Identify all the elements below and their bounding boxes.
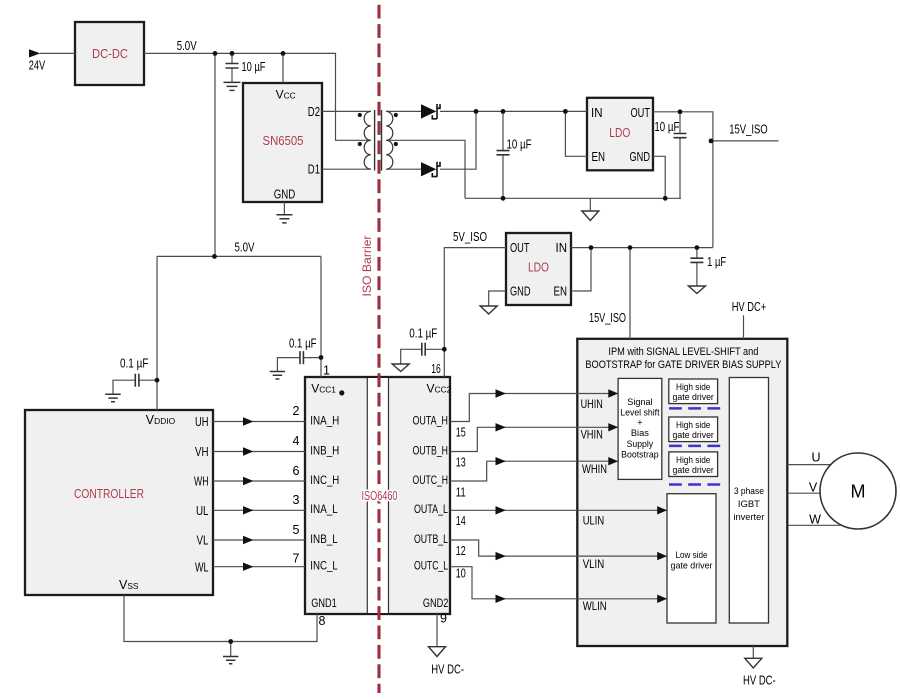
svg-text:OUT: OUT <box>510 241 530 255</box>
svg-text:INA_L: INA_L <box>310 502 338 516</box>
svg-text:5: 5 <box>293 523 300 537</box>
svg-text:6: 6 <box>293 464 300 478</box>
svg-text:5V_ISO: 5V_ISO <box>453 230 487 244</box>
svg-text:High side: High side <box>676 455 710 465</box>
svg-text:GND: GND <box>510 285 531 299</box>
svg-text:5.0V: 5.0V <box>235 241 256 255</box>
svg-text:GND1: GND1 <box>311 596 337 610</box>
svg-text:M: M <box>851 481 866 501</box>
svg-text:OUTB_H: OUTB_H <box>413 443 449 457</box>
svg-text:15V_ISO: 15V_ISO <box>589 311 626 325</box>
svg-text:IN: IN <box>556 241 568 255</box>
svg-text:EN: EN <box>592 150 606 164</box>
svg-text:U: U <box>811 451 820 465</box>
svg-text:INB_H: INB_H <box>310 443 339 457</box>
svg-text:CONTROLLER: CONTROLLER <box>74 486 144 501</box>
svg-text:BOOTSTRAP for GATE DRIVER BIAS: BOOTSTRAP for GATE DRIVER BIAS SUPPLY <box>585 359 782 371</box>
svg-text:OUTC_H: OUTC_H <box>413 473 449 487</box>
svg-text:gate driver: gate driver <box>671 561 713 571</box>
svg-text:LDO: LDO <box>609 125 630 140</box>
svg-text:14: 14 <box>456 514 466 528</box>
svg-text:Signal: Signal <box>627 397 652 407</box>
svg-text:LDO: LDO <box>528 260 549 275</box>
svg-text:GND: GND <box>274 187 296 201</box>
svg-text:8: 8 <box>319 614 326 628</box>
svg-text:VHIN: VHIN <box>581 428 603 442</box>
svg-text:24V: 24V <box>29 58 46 72</box>
svg-text:10 µF: 10 µF <box>242 60 266 74</box>
svg-text:5.0V: 5.0V <box>177 39 198 53</box>
svg-text:UH: UH <box>195 415 209 429</box>
svg-text:13: 13 <box>456 456 466 470</box>
svg-text:11: 11 <box>456 485 466 499</box>
svg-text:OUTA_L: OUTA_L <box>414 502 448 516</box>
svg-text:VSS: VSS <box>119 578 139 592</box>
svg-text:0.1 µF: 0.1 µF <box>289 337 317 351</box>
svg-text:VCC2: VCC2 <box>427 382 452 396</box>
svg-text:inverter: inverter <box>733 512 764 522</box>
svg-text:Level shift: Level shift <box>620 407 660 417</box>
svg-text:ISO6460: ISO6460 <box>362 489 398 503</box>
svg-text:10 µF: 10 µF <box>654 120 679 134</box>
svg-text:GND2: GND2 <box>423 596 449 610</box>
svg-text:HV DC-: HV DC- <box>743 674 776 688</box>
svg-text:D2: D2 <box>308 105 320 119</box>
svg-text:7: 7 <box>293 552 300 566</box>
svg-text:4: 4 <box>293 434 300 448</box>
svg-text:3 phase: 3 phase <box>734 486 764 496</box>
svg-text:Bias: Bias <box>631 428 649 438</box>
svg-text:INB_L: INB_L <box>310 532 338 546</box>
svg-text:ISO Barrier: ISO Barrier <box>360 236 374 297</box>
svg-text:V: V <box>809 481 818 495</box>
svg-text:High side: High side <box>676 382 710 392</box>
svg-text:IN: IN <box>591 106 603 120</box>
svg-text:D1: D1 <box>308 162 320 176</box>
svg-text:OUT: OUT <box>631 106 651 120</box>
svg-text:INC_L: INC_L <box>310 559 338 573</box>
svg-text:OUTC_L: OUTC_L <box>414 559 448 573</box>
svg-text:10: 10 <box>456 567 466 581</box>
svg-text:1 µF: 1 µF <box>707 255 726 269</box>
svg-text:+: + <box>637 418 642 428</box>
svg-text:9: 9 <box>440 611 447 625</box>
svg-text:HV DC+: HV DC+ <box>732 300 767 314</box>
svg-text:ULIN: ULIN <box>583 514 605 528</box>
svg-text:VCC1: VCC1 <box>311 382 336 396</box>
svg-text:10 µF: 10 µF <box>507 138 532 152</box>
svg-text:INA_H: INA_H <box>310 413 339 427</box>
svg-text:15: 15 <box>456 425 466 439</box>
svg-text:INC_H: INC_H <box>310 473 339 487</box>
svg-text:gate driver: gate driver <box>673 392 714 402</box>
svg-text:0.1 µF: 0.1 µF <box>409 326 437 340</box>
svg-text:WHIN: WHIN <box>582 462 607 476</box>
svg-text:IPM with SIGNAL LEVEL-SHIFT an: IPM with SIGNAL LEVEL-SHIFT and <box>608 346 758 358</box>
svg-text:1: 1 <box>323 363 330 377</box>
svg-text:W: W <box>809 513 821 527</box>
svg-text:VCC: VCC <box>276 87 296 101</box>
svg-text:Supply: Supply <box>627 439 654 449</box>
svg-text:Low side: Low side <box>676 550 708 560</box>
svg-text:VL: VL <box>197 534 209 548</box>
svg-text:3: 3 <box>293 493 300 507</box>
svg-text:IGBT: IGBT <box>738 499 760 509</box>
svg-text:16: 16 <box>431 362 441 376</box>
svg-text:WL: WL <box>195 560 209 574</box>
svg-text:High side: High side <box>676 420 710 430</box>
svg-text:OUTA_H: OUTA_H <box>413 413 449 427</box>
svg-text:WH: WH <box>194 475 209 489</box>
svg-text:EN: EN <box>554 285 568 299</box>
svg-text:VLIN: VLIN <box>583 557 605 571</box>
svg-text:UHIN: UHIN <box>581 397 603 411</box>
svg-text:gate driver: gate driver <box>673 465 714 475</box>
svg-text:12: 12 <box>456 544 466 558</box>
svg-text:gate driver: gate driver <box>673 430 714 440</box>
svg-text:VH: VH <box>195 445 209 459</box>
svg-text:0.1 µF: 0.1 µF <box>120 357 149 371</box>
svg-text:DC-DC: DC-DC <box>92 47 128 61</box>
svg-text:HV DC-: HV DC- <box>431 663 464 677</box>
svg-text:VDDIO: VDDIO <box>146 413 176 427</box>
svg-text:15V_ISO: 15V_ISO <box>729 123 768 137</box>
svg-text:WLIN: WLIN <box>583 599 607 613</box>
svg-text:2: 2 <box>293 404 300 418</box>
svg-text:SN6505: SN6505 <box>263 134 304 148</box>
svg-text:UL: UL <box>196 504 209 518</box>
svg-text:GND: GND <box>630 150 651 164</box>
svg-text:Bootstrap: Bootstrap <box>621 450 659 460</box>
svg-text:OUTB_L: OUTB_L <box>414 532 448 546</box>
